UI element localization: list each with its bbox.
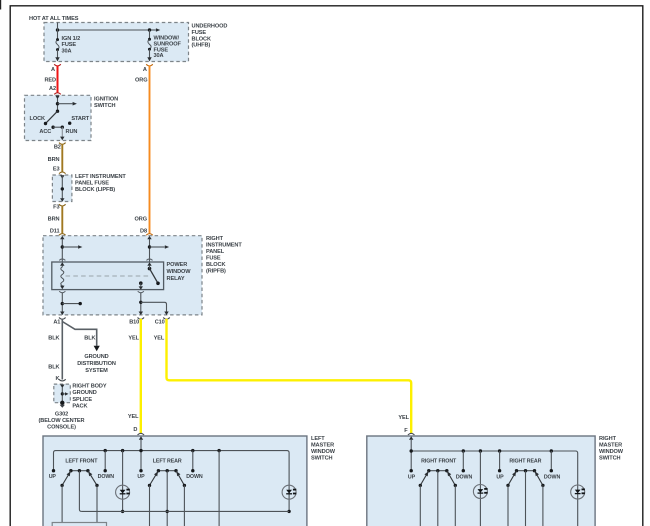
svg-text:FUSE: FUSE bbox=[192, 30, 207, 36]
svg-text:WINDOW: WINDOW bbox=[311, 449, 336, 455]
label LEFT REAR bbox=[153, 458, 182, 464]
switch LEFT FRONT left blade bbox=[60, 470, 72, 487]
svg-text:A: A bbox=[51, 67, 55, 73]
switch RIGHT REAR pivot bar bbox=[515, 469, 536, 472]
value label WINDOW/SUNROOF FUSE 30A bbox=[154, 35, 182, 59]
relay actuation dashed line bbox=[66, 275, 151, 277]
svg-text:PANEL: PANEL bbox=[206, 249, 225, 255]
label YEL (right lower) bbox=[398, 415, 409, 421]
wire: IGN fuse upper stub bbox=[57, 23, 59, 39]
lamp circle LED1 (switch illumination) bbox=[116, 451, 130, 512]
wire: right switch feed bus bbox=[411, 451, 578, 526]
svg-text:D: D bbox=[133, 427, 137, 433]
svg-text:SPLICE: SPLICE bbox=[72, 397, 92, 403]
svg-text:WINDOW: WINDOW bbox=[167, 269, 192, 275]
node: LEFT REAR up contact bbox=[139, 469, 142, 472]
wire: left switch bottom bus bbox=[81, 510, 289, 512]
label LEFT MASTER WINDOW SWITCH bbox=[311, 436, 336, 462]
label UP (right front) bbox=[408, 474, 416, 480]
wire: relay output down to B10 bbox=[140, 293, 142, 312]
node: B10/C10 branch junction bbox=[139, 301, 142, 304]
node: LED2 bottom bus junction bbox=[287, 510, 290, 513]
label DOWN (left rear) bbox=[186, 474, 203, 480]
svg-text:RIGHT FRONT: RIGHT FRONT bbox=[421, 458, 457, 464]
svg-text:A: A bbox=[143, 67, 147, 73]
node: RIPFB right junction bbox=[148, 245, 151, 248]
wire: RF motor lead left bbox=[419, 485, 421, 526]
label UP (left rear) bbox=[137, 474, 145, 480]
pin F bbox=[404, 428, 408, 434]
svg-text:BLK: BLK bbox=[48, 336, 59, 342]
svg-text:LEFT INSTRUMENT: LEFT INSTRUMENT bbox=[75, 174, 126, 180]
svg-text:PANEL FUSE: PANEL FUSE bbox=[75, 181, 109, 187]
svg-text:RIGHT REAR: RIGHT REAR bbox=[509, 458, 541, 464]
wire YEL from B10 to left master window switch D bbox=[140, 319, 142, 433]
node: splice junction with arrow bbox=[61, 392, 69, 395]
node: LR center tap at bottom bus bbox=[166, 510, 169, 513]
label YEL (left lower) bbox=[128, 414, 139, 420]
connector arrow into LIPFB top bbox=[60, 175, 64, 179]
switch LEFT REAR right blade bbox=[175, 470, 186, 487]
svg-text:30A: 30A bbox=[62, 48, 72, 54]
connector cup above LIPFB E3 bbox=[59, 172, 66, 174]
wire: LR motor lead right bbox=[183, 485, 185, 526]
svg-text:SWITCH: SWITCH bbox=[311, 456, 333, 462]
svg-text:GROUND: GROUND bbox=[72, 390, 96, 396]
wire: RIPFB left feed to relay coil bbox=[61, 239, 63, 262]
svg-text:DISTRIBUTION: DISTRIBUTION bbox=[77, 361, 116, 367]
svg-text:G302: G302 bbox=[55, 411, 68, 417]
wire BRN from ignition B2 to LIPFB E3 bbox=[61, 144, 63, 172]
connector cup under ignition switch B2 bbox=[59, 143, 66, 145]
svg-text:BLK: BLK bbox=[48, 364, 59, 370]
power window relay box bbox=[52, 262, 164, 290]
label BLK (branch) bbox=[84, 336, 95, 342]
svg-text:DOWN: DOWN bbox=[98, 474, 115, 480]
fuse IGN 1/2 FUSE 30A bbox=[56, 38, 59, 51]
switch LEFT REAR left blade bbox=[148, 470, 160, 487]
switch RIGHT FRONT pivot bar bbox=[427, 469, 448, 472]
connector arrow into RIPFB D8 bbox=[147, 236, 151, 239]
svg-text:RIGHT BODY: RIGHT BODY bbox=[72, 384, 106, 390]
wire: branch to C10 bbox=[141, 302, 167, 312]
svg-text:POWER: POWER bbox=[167, 262, 188, 268]
svg-text:UP: UP bbox=[49, 474, 57, 480]
svg-text:F3: F3 bbox=[53, 205, 59, 211]
wire: RIPFB left branch arrow bbox=[62, 245, 82, 249]
label YEL (C10) bbox=[154, 336, 165, 342]
connector cup above left switch D bbox=[138, 433, 145, 435]
connector arrow out of RIPFB C10 bbox=[164, 312, 168, 316]
svg-text:IGNITION: IGNITION bbox=[94, 97, 118, 103]
node: switch pivot bbox=[56, 110, 59, 113]
connector cup under LIPFB F3 bbox=[59, 204, 66, 206]
wire: battery feed bus inside UHFB bbox=[58, 28, 161, 32]
switch LEFT REAR pivot bar bbox=[157, 469, 178, 472]
wire: LF center tap to bottom bus bbox=[79, 471, 81, 512]
node: RIGHT FRONT up contact bbox=[410, 469, 413, 472]
pin F3 bbox=[53, 205, 59, 211]
pin K bbox=[56, 376, 60, 382]
switch LEFT FRONT right blade bbox=[87, 470, 99, 487]
svg-text:30A: 30A bbox=[154, 53, 164, 59]
svg-text:ACC: ACC bbox=[39, 129, 51, 135]
connector cup above right switch F bbox=[408, 433, 415, 435]
svg-text:BLOCK: BLOCK bbox=[206, 262, 225, 268]
value label IGN 1/2 FUSE 30A bbox=[62, 36, 81, 54]
svg-text:RIGHT: RIGHT bbox=[599, 436, 617, 442]
svg-text:A2: A2 bbox=[49, 86, 56, 92]
svg-text:RELAY: RELAY bbox=[167, 276, 185, 282]
node: LEFT REAR down contact bbox=[191, 451, 194, 473]
wire: splice pack internal bbox=[61, 388, 63, 403]
svg-text:LEFT: LEFT bbox=[311, 436, 325, 442]
svg-text:(BELOW CENTER: (BELOW CENTER bbox=[39, 418, 85, 424]
connector arrow out of LIPFB bottom bbox=[60, 198, 64, 202]
node: LEFT FRONT up contact bbox=[52, 469, 55, 472]
label RIGHT MASTER WINDOW SWITCH bbox=[599, 436, 624, 462]
label UP (left front) bbox=[49, 474, 57, 480]
label G302 (BELOW CENTER CONSOLE) bbox=[39, 411, 85, 430]
wire: LF motor lead left bbox=[61, 485, 63, 522]
connector arrow out of RIPFB B10 bbox=[139, 312, 143, 316]
svg-text:C10: C10 bbox=[155, 319, 165, 325]
pin A (UHFB left) bbox=[51, 67, 55, 73]
svg-text:FUSE: FUSE bbox=[62, 42, 77, 48]
wire ORG from UHFB A to RIPFB D8 bbox=[149, 66, 151, 234]
svg-text:LEFT FRONT: LEFT FRONT bbox=[65, 458, 98, 464]
wire: ACC to RUN link bbox=[53, 126, 62, 128]
pin A2 bbox=[49, 86, 56, 92]
connector arrow into left switch pin D bbox=[139, 436, 143, 440]
fuse WINDOW/SUNROOF FUSE 30A bbox=[148, 30, 151, 51]
connector cup above RIPFB D8 bbox=[146, 234, 153, 236]
svg-text:E3: E3 bbox=[53, 167, 60, 173]
node: bus junction at RR down bbox=[550, 449, 553, 452]
svg-text:BRN: BRN bbox=[48, 217, 60, 223]
switch RIGHT FRONT left blade bbox=[419, 470, 430, 487]
wire: RUN output to B2 bbox=[60, 127, 64, 140]
svg-text:IGN 1/2: IGN 1/2 bbox=[62, 36, 81, 42]
wire: LIPFB internal bbox=[61, 176, 63, 200]
relay coil K1 bbox=[60, 266, 64, 290]
svg-text:SWITCH: SWITCH bbox=[599, 456, 621, 462]
label DOWN (right front) bbox=[456, 474, 473, 480]
pin D bbox=[133, 427, 137, 433]
svg-text:A1: A1 bbox=[53, 319, 60, 325]
svg-text:LEFT REAR: LEFT REAR bbox=[153, 458, 182, 464]
svg-text:UNDERHOOD: UNDERHOOD bbox=[192, 24, 228, 30]
motor M1 left front window motor box bbox=[52, 523, 106, 526]
svg-text:(UHFB): (UHFB) bbox=[192, 43, 211, 49]
wire: RF center tap down bbox=[437, 471, 439, 526]
svg-text:UP: UP bbox=[408, 474, 416, 480]
label UNDERHOOD FUSE BLOCK (UHFB) bbox=[192, 24, 228, 49]
connector cup under RIPFB B10 bbox=[138, 318, 145, 320]
connector cup under relay coil pin bbox=[59, 291, 65, 292]
wire YEL from C10 to right master window switch F bbox=[167, 319, 412, 433]
svg-text:SWITCH: SWITCH bbox=[94, 103, 116, 109]
wire RED from UHFB A to ignition switch A2 bbox=[57, 66, 59, 93]
label RIGHT REAR bbox=[509, 458, 541, 464]
switch RIGHT REAR right blade bbox=[533, 470, 544, 487]
label ORG (upper) bbox=[135, 78, 147, 84]
wire: relay coil ground leg inside RIPFB bbox=[61, 293, 63, 312]
wire: RR motor lead right bbox=[542, 485, 544, 526]
wire: F entry stem to RIGHT FRONT up contact bbox=[410, 439, 412, 471]
label GROUND DISTRIBUTION SYSTEM bbox=[77, 354, 116, 374]
label ORG (lower) bbox=[135, 217, 147, 223]
node: bus junction at LED1 bbox=[121, 449, 124, 452]
node: bus junction at LR down bbox=[191, 449, 194, 452]
connector cup above relay right pin bbox=[146, 259, 152, 260]
wire: LF motor lead right bbox=[96, 485, 98, 522]
label BRN (lower) bbox=[48, 217, 60, 223]
connector cup above ignition switch A2 bbox=[54, 93, 61, 95]
node: RIGHT REAR down contact bbox=[550, 451, 553, 472]
pin E3 bbox=[53, 167, 60, 173]
node: bus junction at LED3 bbox=[479, 449, 482, 452]
svg-text:DOWN: DOWN bbox=[186, 474, 203, 480]
svg-text:BRN: BRN bbox=[48, 157, 60, 163]
label DOWN (left front) bbox=[98, 474, 115, 480]
label RIGHT FRONT bbox=[421, 458, 457, 464]
ground G302 terminal dot bbox=[60, 401, 65, 408]
wire: ignition accessory feed arrow bbox=[58, 102, 77, 106]
svg-text:YEL: YEL bbox=[398, 415, 409, 421]
svg-text:D11: D11 bbox=[50, 229, 60, 235]
switch LEFT FRONT pivot bar bbox=[69, 469, 89, 472]
lamp circle LED3 (switch illumination) bbox=[473, 451, 487, 526]
node: relay output contact bbox=[139, 281, 143, 285]
svg-text:K: K bbox=[56, 376, 60, 382]
node: START contact bbox=[68, 122, 71, 125]
svg-text:B10: B10 bbox=[129, 319, 139, 325]
right body ground splice pack box bbox=[54, 384, 71, 403]
label HOT AT ALL TIMES bbox=[29, 16, 79, 22]
node: LEFT FRONT down contact bbox=[104, 451, 107, 473]
wire: A1 branch arrow bbox=[62, 302, 82, 305]
svg-text:D8: D8 bbox=[140, 229, 147, 235]
connector arrow into ignition switch top bbox=[55, 96, 59, 100]
connector arrow into splice pack bbox=[60, 385, 64, 389]
node: bus junction at RF down bbox=[462, 449, 465, 452]
lamp circle LED2 (switch illumination) bbox=[282, 485, 296, 499]
connector cup under RIPFB A1 bbox=[59, 318, 66, 320]
svg-text:INSTRUMENT: INSTRUMENT bbox=[206, 243, 242, 249]
right instrument panel fuse block (RIPFB) box bbox=[43, 236, 202, 315]
wire: RIPFB right feed to relay contact bbox=[149, 239, 151, 262]
node: relay contact pivot bbox=[148, 265, 152, 270]
svg-text:HOT AT ALL TIMES: HOT AT ALL TIMES bbox=[29, 16, 79, 22]
switch RIGHT REAR left blade bbox=[506, 470, 517, 487]
label LEFT INSTRUMENT PANEL FUSE BLOCK (LIPFB) bbox=[75, 174, 126, 193]
svg-text:CONSOLE): CONSOLE) bbox=[47, 425, 76, 431]
node: bus junction at LF down bbox=[104, 449, 107, 452]
label POWER WINDOW RELAY bbox=[167, 262, 192, 282]
label RED bbox=[44, 78, 56, 84]
connector arrow into right switch pin F bbox=[409, 436, 413, 440]
connector cup under relay output pin bbox=[138, 291, 144, 292]
connector cup under RIPFB C10 bbox=[163, 318, 170, 320]
label RIGHT INSTRUMENT PANEL FUSE BLOCK (RIPFB) bbox=[206, 236, 242, 275]
svg-text:SYSTEM: SYSTEM bbox=[85, 368, 108, 374]
node: RIGHT REAR up contact bbox=[498, 451, 501, 472]
label ACC bbox=[39, 129, 51, 135]
node: bus junction at RR up bbox=[498, 449, 501, 452]
svg-text:RED: RED bbox=[44, 78, 56, 84]
switch blade (ignition, at LOCK) bbox=[46, 111, 58, 123]
node: ACC contact bbox=[51, 126, 54, 129]
node: bus junction at D entry bbox=[139, 449, 142, 452]
wire BLK from A1 down to splice pack K bbox=[61, 319, 63, 380]
node: junction dot at WINDOW fuse top bbox=[148, 28, 151, 31]
label RUN bbox=[66, 129, 78, 135]
node: LED1 bottom bus junction bbox=[121, 510, 124, 513]
svg-text:START: START bbox=[71, 116, 89, 122]
connector arrow into relay coil pin bbox=[60, 262, 64, 266]
svg-text:YEL: YEL bbox=[154, 336, 165, 342]
node: A1 branch junction bbox=[61, 302, 64, 305]
connector arrow out of RIPFB A1 bbox=[60, 312, 64, 316]
node: RIPFB left junction bbox=[61, 245, 64, 248]
svg-text:WINDOW: WINDOW bbox=[599, 449, 624, 455]
left master window switch box bbox=[43, 436, 307, 526]
svg-text:GROUND: GROUND bbox=[84, 354, 108, 360]
wire: IGN fuse lower stub to terminal A bbox=[55, 50, 59, 62]
svg-text:BLOCK: BLOCK bbox=[192, 36, 211, 42]
svg-text:F: F bbox=[404, 428, 408, 434]
node: RUN contact bbox=[61, 126, 64, 129]
svg-text:B2: B2 bbox=[54, 145, 61, 151]
wire: RR center tap down bbox=[525, 471, 527, 526]
label YEL (B10) bbox=[128, 336, 139, 342]
wire: LR motor lead left bbox=[149, 485, 151, 526]
pin A1 bbox=[53, 319, 60, 325]
svg-text:LOCK: LOCK bbox=[30, 116, 46, 122]
pin D8 bbox=[140, 229, 147, 235]
node: LIPFB junction bbox=[61, 187, 64, 190]
node: LOCK contact bbox=[44, 122, 47, 125]
wire: left switch feed bus bbox=[54, 451, 290, 512]
connector arrow into relay contact pin bbox=[147, 262, 151, 266]
wire BRN from LIPFB F3 to RIPFB D11 bbox=[61, 206, 63, 233]
wire BLK branch to ground distribution system bbox=[62, 322, 100, 352]
svg-text:YEL: YEL bbox=[128, 336, 139, 342]
wire: RR motor lead left bbox=[507, 485, 509, 526]
right master window switch box bbox=[367, 436, 595, 526]
svg-text:UP: UP bbox=[496, 474, 504, 480]
wire: ignition switch input stem bbox=[57, 99, 59, 112]
label BRN bbox=[48, 157, 60, 163]
label UP (right rear) bbox=[496, 474, 504, 480]
left instrument panel fuse block (LIPFB) box bbox=[52, 175, 72, 202]
connector cup above relay left pin bbox=[59, 259, 65, 260]
svg-text:(RIPFB): (RIPFB) bbox=[206, 269, 226, 275]
svg-text:MASTER: MASTER bbox=[599, 443, 622, 449]
svg-text:ORG: ORG bbox=[135, 217, 147, 223]
connector arrow into RIPFB D11 bbox=[60, 236, 64, 239]
pin B2 bbox=[54, 145, 61, 151]
label DOWN (right rear) bbox=[544, 474, 561, 480]
label IGNITION SWITCH bbox=[94, 97, 118, 109]
label BLK (lower) bbox=[48, 364, 59, 370]
pin A (UHFB right) bbox=[143, 67, 147, 73]
wire: relay output stub bbox=[139, 283, 143, 290]
wire: D entry stem to LEFT REAR up contact bbox=[140, 439, 142, 469]
label START bbox=[71, 116, 89, 122]
svg-text:RIGHT: RIGHT bbox=[206, 236, 224, 242]
relay switch blade (normally open) bbox=[150, 269, 159, 284]
lamp circle LED4 (switch illumination) bbox=[571, 485, 585, 499]
node: RIGHT FRONT down contact bbox=[462, 451, 465, 472]
node: junction dot at IGN fuse top bbox=[56, 28, 59, 31]
svg-text:PACK: PACK bbox=[72, 403, 87, 409]
svg-text:MASTER: MASTER bbox=[311, 443, 334, 449]
node: relay blade end bbox=[156, 282, 160, 286]
node: ignition feed junction bbox=[56, 102, 59, 105]
label LEFT FRONT bbox=[65, 458, 98, 464]
pin C10 bbox=[155, 319, 165, 325]
node: bus junction at F entry bbox=[410, 449, 413, 452]
svg-text:YEL: YEL bbox=[128, 414, 139, 420]
svg-text:BLOCK (LIPFB): BLOCK (LIPFB) bbox=[75, 187, 115, 193]
ignition switch box bbox=[25, 95, 92, 140]
connector cup above splice pack K bbox=[59, 379, 66, 381]
svg-text:UP: UP bbox=[137, 474, 145, 480]
connector cup above RIPFB D11 bbox=[59, 234, 66, 236]
switch RIGHT FRONT right blade bbox=[446, 470, 457, 487]
wire: RIPFB right branch arrow bbox=[150, 245, 170, 249]
svg-text:ORG: ORG bbox=[135, 78, 147, 84]
svg-text:BLK: BLK bbox=[84, 336, 95, 342]
label LOCK bbox=[30, 116, 46, 122]
connector cup under UHFB pin A left bbox=[54, 64, 61, 66]
connector cup under UHFB pin A right bbox=[146, 64, 153, 66]
wire: LR center tap through bottom bus bbox=[166, 471, 168, 526]
wire: WINDOW fuse lower stub to terminal A bbox=[147, 49, 151, 61]
svg-text:DOWN: DOWN bbox=[544, 474, 561, 480]
wire: rear window feed vertical bbox=[218, 451, 220, 526]
underhood fuse block (UHFB) box bbox=[44, 23, 189, 62]
svg-text:RUN: RUN bbox=[66, 129, 78, 135]
svg-text:FUSE: FUSE bbox=[206, 256, 221, 262]
label RIGHT BODY GROUND SPLICE PACK bbox=[72, 384, 106, 410]
pin B10 bbox=[129, 319, 139, 325]
label BLK (left) bbox=[48, 336, 59, 342]
node: bus junction at rear feed bbox=[217, 449, 220, 452]
svg-text:DOWN: DOWN bbox=[456, 474, 473, 480]
wire: RF motor lead right bbox=[454, 485, 456, 526]
pin D11 bbox=[50, 229, 60, 235]
